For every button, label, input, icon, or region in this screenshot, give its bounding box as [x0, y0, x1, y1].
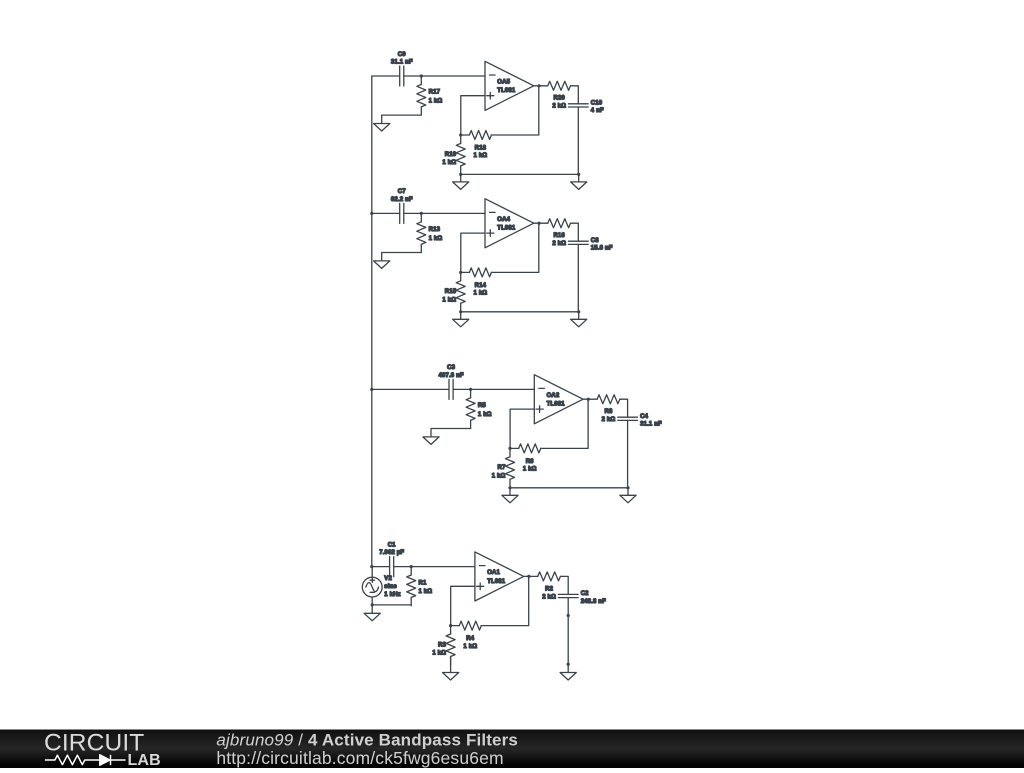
- resistor R15 (1 k&#937;): [442, 272, 465, 311]
- svg-text:R5: R5: [478, 403, 486, 409]
- svg-text:R20: R20: [553, 96, 565, 102]
- svg-text:R4: R4: [466, 636, 474, 642]
- wire: C8 bottom to ground rail: [577, 244, 579, 311]
- svg-text:31.1 nF: 31.1 nF: [391, 60, 413, 66]
- svg-text:sine: sine: [384, 584, 397, 590]
- resistor R19 (1 k&#937;): [442, 135, 465, 174]
- ground (below C4): [627, 488, 629, 496]
- wire: OA2 non-inverting input to feedback node: [510, 409, 534, 448]
- wire: input bus (V2 to all filter inputs): [371, 76, 373, 567]
- svg-text:C4: C4: [640, 414, 648, 420]
- svg-text:TL081: TL081: [497, 88, 516, 94]
- node: rail left: [508, 486, 511, 489]
- node: feedback junction (R14/R15): [459, 271, 462, 274]
- node: bus tap stage 2: [370, 212, 373, 215]
- svg-text:C8: C8: [591, 238, 599, 244]
- svg-text:31.1 nF: 31.1 nF: [640, 422, 662, 428]
- node: C3/R5/OA2 input junction: [469, 388, 472, 391]
- resistor R6 (1 k&#937;): [510, 444, 541, 473]
- svg-text:C7: C7: [398, 189, 406, 195]
- capacitor C4 (31.1 nF): [618, 414, 662, 428]
- ground (below R17): [374, 124, 390, 132]
- wire: V2 negative to R1/ground: [371, 597, 373, 605]
- wire: R5 bottom to ground: [431, 429, 471, 437]
- op-amp OA4 (TL081): [485, 199, 534, 248]
- svg-text:R18: R18: [475, 146, 487, 152]
- svg-text:1 kΩ: 1 kΩ: [432, 651, 446, 657]
- svg-text:1 kΩ: 1 kΩ: [429, 236, 443, 242]
- node: V2 negative junction: [371, 603, 374, 606]
- ground (below C8): [578, 312, 580, 320]
- svg-text:2 kΩ: 2 kΩ: [542, 594, 556, 600]
- wire: ground rail R19 to C10: [461, 173, 579, 175]
- svg-text:1 kΩ: 1 kΩ: [442, 297, 456, 303]
- node: C9/R17/OA5 input junction: [420, 74, 423, 77]
- wire: OA5 non-inverting input to feedback node: [461, 96, 485, 135]
- resistor R14 (1 k&#937;): [461, 268, 492, 297]
- node: rail right: [577, 173, 580, 176]
- svg-text:1 kΩ: 1 kΩ: [429, 98, 443, 104]
- wire: R1 bottom to V2 negative terminal: [372, 604, 411, 606]
- wire: R13 bottom to ground: [382, 253, 422, 261]
- op-amp OA1 (TL081): [475, 552, 524, 601]
- op-amp OA2 (TL081): [534, 375, 583, 424]
- svg-text:C10: C10: [591, 101, 603, 107]
- svg-text:1 kΩ: 1 kΩ: [523, 467, 537, 473]
- svg-text:C9: C9: [398, 52, 406, 58]
- svg-text:R6: R6: [526, 459, 534, 465]
- svg-text:248.8 nF: 248.8 nF: [581, 599, 606, 605]
- node: feedback junction (R18/R19): [459, 133, 462, 136]
- node: C7/R13/OA4 input junction: [420, 212, 423, 215]
- op-amp OA5 (TL081): [485, 61, 534, 110]
- svg-text:R16: R16: [553, 233, 565, 239]
- ground (below C2): [560, 673, 576, 681]
- svg-text:C3: C3: [447, 365, 455, 371]
- node: bus tap stage 4 / V2 positive: [370, 565, 373, 568]
- svg-text:OA2: OA2: [547, 393, 560, 399]
- svg-text:1 kΩ: 1 kΩ: [478, 412, 492, 418]
- wire: OA4 non-inverting input to feedback node: [461, 233, 485, 272]
- ground (below C10): [578, 174, 580, 182]
- svg-text:1 kΩ: 1 kΩ: [442, 160, 456, 166]
- resistor R3 (1 k&#937;): [432, 626, 455, 665]
- resistor R7 (1 k&#937;): [492, 448, 515, 487]
- svg-text:1 kΩ: 1 kΩ: [474, 153, 488, 159]
- ground (below R5): [423, 437, 439, 445]
- svg-text:OA5: OA5: [497, 80, 510, 86]
- wire: input net to OA4 inverting input: [372, 212, 400, 214]
- svg-text:7.962 µF: 7.962 µF: [379, 550, 404, 556]
- svg-text:1 kΩ: 1 kΩ: [419, 589, 433, 595]
- svg-text:C1: C1: [388, 542, 396, 548]
- capacitor C9 (31.1 nF): [391, 52, 413, 86]
- svg-text:4 nF: 4 nF: [591, 108, 604, 114]
- wire: R3 bottom to ground: [450, 657, 452, 673]
- svg-text:http://circuitlab.com/ck5fwg6e: http://circuitlab.com/ck5fwg6esu6em: [216, 748, 503, 768]
- svg-text:R3: R3: [438, 642, 446, 648]
- resistor R1 (1 k&#937;): [407, 567, 433, 606]
- wire: R18 to OA5 output: [491, 86, 538, 135]
- svg-text:R19: R19: [445, 152, 457, 158]
- wire: OA1 non-inverting input to feedback node: [451, 586, 475, 625]
- wire: C10 bottom to ground rail: [577, 107, 579, 174]
- node: rail left: [459, 173, 462, 176]
- resistor R17 (1 k&#937;): [417, 76, 443, 115]
- resistor R2 (2 k&#937;): [524, 572, 569, 600]
- wire: input net to OA2 inverting input: [372, 388, 449, 390]
- ground (below R19): [460, 174, 462, 182]
- node: OA4 output: [537, 222, 540, 225]
- resistor R13 (1 k&#937;): [417, 213, 443, 252]
- CircuitLab logo: resistor-diode glyph: [45, 755, 126, 765]
- wire: R17 bottom to ground: [382, 115, 422, 123]
- svg-text:2 kΩ: 2 kΩ: [602, 417, 616, 423]
- node: bus tap stage 3: [370, 388, 373, 391]
- capacitor C3 (497.6 nF): [438, 365, 463, 399]
- svg-text:497.6 nF: 497.6 nF: [438, 373, 463, 379]
- svg-text:TL081: TL081: [547, 402, 566, 408]
- node: wire joint: [567, 614, 570, 617]
- wire: C2 bottom to ground: [567, 598, 569, 673]
- resistor R16 (2 k&#937;): [534, 219, 579, 247]
- resistor R18 (1 k&#937;): [461, 131, 492, 160]
- capacitor C8 (15.6 nF): [569, 238, 613, 252]
- svg-text:R1: R1: [419, 580, 427, 586]
- svg-text:R13: R13: [429, 227, 441, 233]
- svg-text:2 kΩ: 2 kΩ: [552, 241, 566, 247]
- svg-text:1 kΩ: 1 kΩ: [492, 473, 506, 479]
- resistor R8 (2 k&#937;): [583, 395, 628, 423]
- node: rail right: [626, 486, 629, 489]
- node: wire joint 2: [567, 663, 570, 666]
- svg-text:OA4: OA4: [497, 217, 510, 223]
- node: OA1 output: [527, 575, 530, 578]
- svg-text:R8: R8: [605, 409, 613, 415]
- svg-text:V2: V2: [384, 576, 392, 582]
- resistor R4 (1 k&#937;): [451, 621, 482, 650]
- svg-text:LAB: LAB: [128, 752, 161, 768]
- wire: input net to OA1 inverting input: [372, 566, 390, 568]
- svg-text:R15: R15: [445, 289, 457, 295]
- wire: input net to OA5 inverting input: [372, 75, 400, 77]
- svg-text:1 kΩ: 1 kΩ: [474, 291, 488, 297]
- svg-text:1 kΩ: 1 kΩ: [463, 644, 477, 650]
- wire: R6 to OA2 output: [541, 399, 588, 448]
- svg-text:C2: C2: [581, 591, 589, 597]
- ground (below R3): [443, 673, 459, 681]
- wire: ground rail R7 to C4: [510, 487, 628, 489]
- svg-text:R17: R17: [429, 90, 441, 96]
- node: OA5 output: [537, 84, 540, 87]
- capacitor C7 (62.2 nF): [391, 189, 413, 223]
- resistor R20 (2 k&#937;): [534, 81, 579, 109]
- svg-text:R2: R2: [545, 586, 553, 592]
- svg-text:1 kHz: 1 kHz: [384, 592, 400, 598]
- svg-text:2 kΩ: 2 kΩ: [552, 104, 566, 110]
- svg-text:TL081: TL081: [487, 579, 506, 585]
- svg-text:R14: R14: [475, 283, 487, 289]
- svg-text:OA1: OA1: [487, 570, 500, 576]
- ground (below R13): [374, 261, 390, 269]
- node: feedback junction (R4/R3): [449, 624, 452, 627]
- node: C1/R1/OA1 input junction: [410, 565, 413, 568]
- wire: C4 bottom to ground rail: [627, 420, 629, 487]
- svg-text:R7: R7: [498, 465, 506, 471]
- node: rail left: [459, 310, 462, 313]
- svg-text:TL081: TL081: [497, 226, 516, 232]
- wire: ground rail R15 to C8: [461, 311, 579, 313]
- resistor R5 (1 k&#937;): [466, 389, 492, 428]
- svg-text:15.6 nF: 15.6 nF: [591, 246, 613, 252]
- capacitor C10 (4 nF): [569, 101, 604, 115]
- capacitor C1 (7.962 &#181;F): [379, 542, 404, 576]
- node: OA2 output: [587, 398, 590, 401]
- ground (below R15): [460, 312, 462, 320]
- node: rail right: [577, 310, 580, 313]
- capacitor C2 (248.8 nF): [558, 591, 606, 605]
- node: feedback junction (R6/R7): [508, 447, 511, 450]
- ground (below R7): [509, 488, 511, 496]
- svg-text:62.2 nF: 62.2 nF: [391, 197, 413, 203]
- wire: R14 to OA4 output: [491, 223, 538, 272]
- voltage source V2 (sine 1 kHz): [362, 567, 400, 598]
- wire: R4 to OA1 output: [481, 576, 528, 625]
- ground (below V2): [371, 605, 373, 613]
